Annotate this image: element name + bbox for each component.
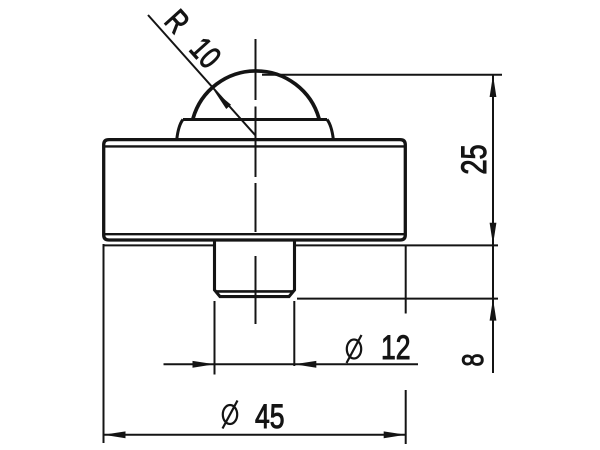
dia12 arrow right outside: [294, 361, 316, 368]
R10 arrowhead: [212, 88, 231, 109]
stud chamfer edge line: [216, 290, 293, 293]
top extension line from ball: [262, 74, 502, 76]
stud outline: [215, 242, 295, 297]
arrow 8 bottom outside: [490, 299, 497, 321]
body bottom lip line left: [104, 244, 215, 246]
svg-text:12: 12: [381, 329, 411, 367]
extension line x405.7 upper segment: [405, 245, 407, 313]
dia45 arrow right: [384, 431, 406, 438]
svg-text:R 10: R 10: [157, 3, 227, 75]
extension line x405.7 lower segment: [405, 390, 407, 444]
dia12 extension line right: [293, 301, 295, 366]
dia12 extension line left: [214, 301, 216, 375]
dia45 arrow left: [104, 431, 126, 438]
right dimension line (25 and 8): [492, 75, 494, 373]
arrow 25 bottom: [490, 223, 497, 245]
arrow 25 top: [490, 75, 497, 97]
dia45 symbol: [223, 401, 238, 429]
svg-text:8: 8: [456, 353, 489, 366]
svg-text:25: 25: [455, 144, 494, 174]
extension line x103.5 left: [103, 244, 105, 443]
extension line y298 from stud: [297, 298, 498, 300]
dia45 dimension line: [104, 434, 406, 436]
body outline: [104, 140, 406, 240]
collar outline: [177, 120, 333, 140]
dia12 symbol: [347, 335, 362, 363]
ball arc: [193, 71, 319, 119]
R10 leader line: [148, 15, 256, 136]
dia12 dimension line: [164, 363, 419, 365]
vertical centerline: [255, 39, 257, 324]
svg-text:45: 45: [255, 398, 285, 436]
extension line y245 right of body: [406, 244, 499, 246]
body bottom lip line right: [294, 244, 405, 246]
body bottom chamfer line: [104, 233, 405, 235]
body top chamfer line: [104, 145, 405, 147]
dia12 arrow left outside: [193, 361, 215, 368]
